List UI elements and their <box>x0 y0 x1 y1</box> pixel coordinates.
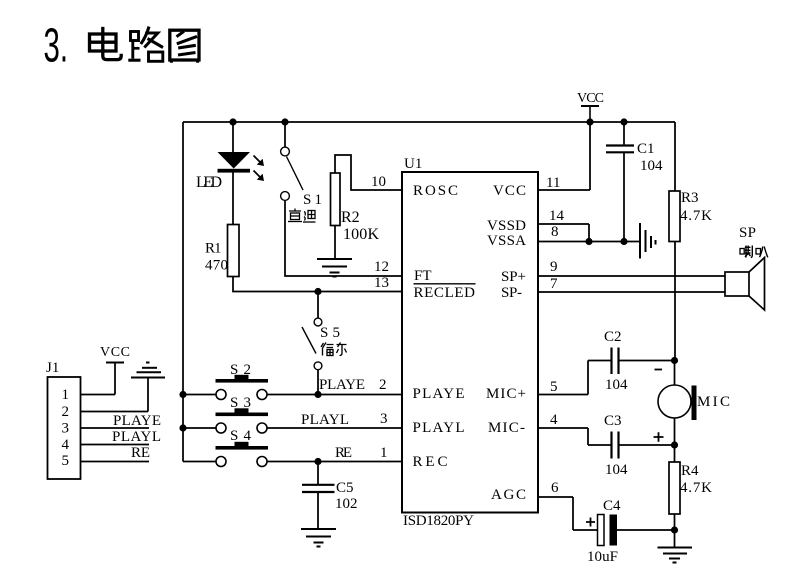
svg-text:102: 102 <box>335 496 358 512</box>
svg-text:PLAYE: PLAYE <box>113 413 161 429</box>
svg-text:104: 104 <box>640 158 663 174</box>
svg-text:6: 6 <box>551 480 559 496</box>
svg-text:SP-: SP- <box>501 285 522 301</box>
svg-text:SP: SP <box>739 225 756 241</box>
svg-text:VCC: VCC <box>493 183 526 199</box>
svg-text:4.7K: 4.7K <box>680 480 712 496</box>
svg-text:2: 2 <box>379 377 387 393</box>
svg-text:1: 1 <box>380 445 388 461</box>
svg-text:J1: J1 <box>46 360 59 376</box>
svg-text:4.7K: 4.7K <box>680 208 712 224</box>
svg-text:1: 1 <box>62 387 70 403</box>
svg-text:5: 5 <box>62 453 70 469</box>
svg-text:PLAYL: PLAYL <box>301 412 349 428</box>
svg-text:3: 3 <box>380 411 388 427</box>
svg-text:MIC-: MIC- <box>488 420 525 436</box>
svg-text:R4: R4 <box>681 463 699 479</box>
svg-text:REC: REC <box>413 454 448 470</box>
svg-text:C5: C5 <box>336 480 354 496</box>
svg-text:C4: C4 <box>603 498 621 514</box>
svg-text:9: 9 <box>550 259 558 275</box>
svg-text:U1: U1 <box>404 156 422 172</box>
svg-text:RE: RE <box>335 445 352 461</box>
svg-text:3: 3 <box>62 421 70 437</box>
svg-text:10uF: 10uF <box>587 549 618 565</box>
svg-text:ROSC: ROSC <box>413 183 458 199</box>
svg-text:2: 2 <box>62 404 70 420</box>
svg-text:4: 4 <box>62 437 70 453</box>
svg-text:C3: C3 <box>604 413 622 429</box>
svg-text:RE: RE <box>131 445 150 461</box>
svg-text:C1: C1 <box>637 141 655 157</box>
svg-text:104: 104 <box>605 377 628 393</box>
svg-text:SP+: SP+ <box>501 269 526 285</box>
svg-text:VCC: VCC <box>100 345 130 360</box>
svg-text:4: 4 <box>550 412 558 428</box>
svg-text:VSSA: VSSA <box>487 233 526 249</box>
svg-text:14: 14 <box>549 208 565 224</box>
svg-text:FT: FT <box>414 268 432 284</box>
svg-text:470: 470 <box>205 258 228 274</box>
svg-text:R2: R2 <box>341 209 360 226</box>
svg-text:3.: 3. <box>44 20 69 73</box>
svg-text:VSSD: VSSD <box>487 218 526 234</box>
svg-text:PLAYL: PLAYL <box>112 429 161 445</box>
svg-text:ISD1820PY: ISD1820PY <box>403 513 474 529</box>
svg-text:AGC: AGC <box>491 487 526 503</box>
svg-text:104: 104 <box>605 462 628 478</box>
svg-text:R3: R3 <box>681 190 699 206</box>
svg-text:8: 8 <box>551 224 559 240</box>
svg-text:VCC: VCC <box>577 91 604 106</box>
svg-text:RECLED: RECLED <box>414 285 476 301</box>
svg-text:MIC: MIC <box>697 394 730 410</box>
svg-text:12: 12 <box>374 259 389 275</box>
svg-text:C2: C2 <box>604 329 622 345</box>
svg-text:R1: R1 <box>205 241 222 257</box>
svg-text:7: 7 <box>550 276 558 292</box>
svg-text:5: 5 <box>550 379 558 395</box>
svg-text:13: 13 <box>374 275 389 291</box>
svg-text:100K: 100K <box>343 226 379 243</box>
svg-text:PLAYE: PLAYE <box>319 377 365 393</box>
svg-text:PLAYL: PLAYL <box>413 420 465 436</box>
svg-text:LED: LED <box>196 174 222 191</box>
svg-text:11: 11 <box>546 175 560 191</box>
svg-text:MIC+: MIC+ <box>486 386 526 402</box>
svg-text:PLAYE: PLAYE <box>413 386 465 402</box>
svg-text:10: 10 <box>371 174 386 190</box>
